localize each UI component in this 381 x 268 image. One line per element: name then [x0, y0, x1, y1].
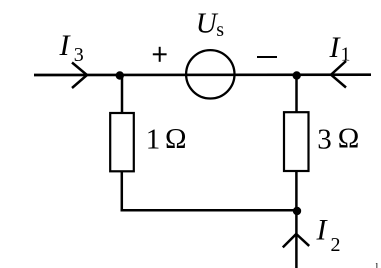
wire: right vertical from node B to R2 [295, 75, 298, 112]
value label 1 ohm [146, 123, 187, 155]
svg-text:s: s [216, 19, 224, 41]
polarity plus sign [153, 47, 167, 62]
svg-text:Ω: Ω [165, 123, 187, 155]
node B: top-right junction dot [293, 71, 301, 79]
node C: bottom-right junction dot [293, 207, 301, 215]
wire: left vertical drop from node A to R1 [121, 75, 124, 113]
voltage source US (circle) [186, 50, 234, 98]
svg-text:.l: .l [373, 262, 379, 268]
svg-text:1: 1 [146, 123, 161, 155]
label US [196, 8, 225, 41]
current arrow I1 (pointing left) [331, 61, 346, 88]
current arrow I2 (pointing up) [283, 234, 309, 247]
wire: bottom horizontal rail [121, 209, 298, 212]
svg-text:1: 1 [341, 44, 351, 66]
value label 3 ohm [317, 123, 359, 156]
wire: right vertical below R2 to bottom edge [295, 171, 298, 268]
polarity minus sign [257, 56, 277, 58]
wire: left vertical below R1 to bottom rail [121, 171, 124, 211]
svg-text:3: 3 [74, 44, 84, 66]
label I3 [59, 29, 84, 66]
resistor R1 (1 ohm, left) [110, 113, 134, 171]
resistor R2 (3 ohm, right) [284, 112, 309, 171]
svg-text:3: 3 [317, 123, 332, 155]
node A: top-left junction dot [116, 71, 124, 79]
current arrow I3 (pointing right) [72, 63, 87, 89]
svg-text:Ω: Ω [338, 123, 360, 155]
svg-text:I: I [59, 29, 72, 62]
label I2 [316, 213, 341, 256]
label I1 [329, 31, 351, 66]
wire: top horizontal rail [34, 73, 371, 76]
svg-text:I: I [316, 213, 329, 246]
svg-text:2: 2 [331, 234, 341, 256]
